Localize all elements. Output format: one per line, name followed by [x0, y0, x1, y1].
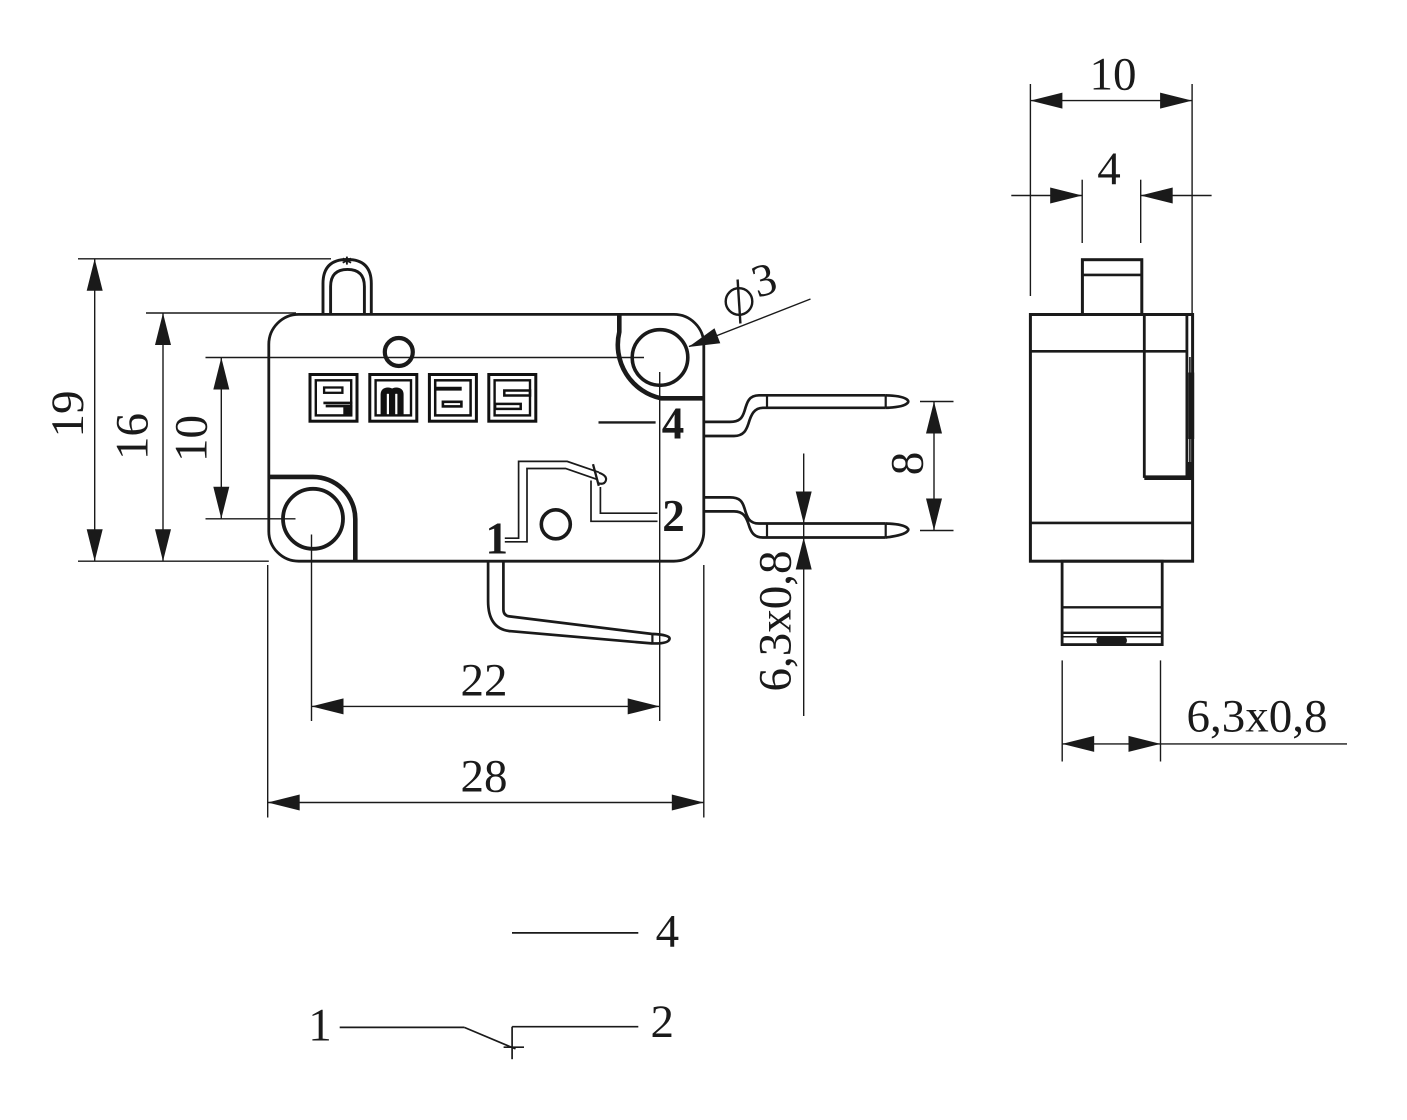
- schematic switch blade: [464, 1027, 515, 1049]
- leader phi 3: [689, 299, 811, 347]
- svg-text:4: 4: [656, 906, 680, 958]
- plunger outer: [323, 259, 371, 314]
- schematic blade tick: [504, 1046, 524, 1048]
- schematic contact post 2: [511, 1027, 513, 1060]
- dimension 10 (hole distance): [206, 358, 645, 519]
- dimension 6,3x0,8 side: [1062, 660, 1347, 761]
- side plunger cap line: [1082, 274, 1141, 277]
- dimension 22: [312, 705, 660, 707]
- lever arm: [488, 562, 669, 643]
- svg-text:8: 8: [882, 452, 934, 476]
- svg-text:4: 4: [1097, 143, 1121, 195]
- schematic wire from 1: [340, 1026, 465, 1028]
- side latch thick edge: [1188, 373, 1194, 440]
- body outline front view: [269, 314, 704, 561]
- side terminal blade end: [1096, 637, 1127, 644]
- terminal 4 (upper right): [705, 395, 909, 436]
- extension line right hole to dim 22: [659, 372, 661, 721]
- side terminal block: [1062, 561, 1162, 644]
- dimension 6,3x0,8 (front terminal): [803, 454, 805, 717]
- svg-text:6,3x0,8: 6,3x0,8: [1187, 691, 1328, 743]
- terminal 2 (lower right): [705, 497, 909, 537]
- svg-text:22: 22: [461, 655, 508, 707]
- plunger inner: [331, 269, 365, 314]
- asterisk mark: [343, 257, 351, 265]
- svg-text:10: 10: [1090, 49, 1137, 101]
- schematic contact 4 line: [512, 932, 638, 934]
- extension line left hole to dim 22: [311, 535, 313, 722]
- small circle near terminal 1: [541, 510, 570, 539]
- svg-text:28: 28: [461, 751, 508, 803]
- emas letter e box: [310, 375, 357, 422]
- dimension 28: [268, 565, 704, 818]
- emas letter a box: [429, 375, 476, 422]
- svg-text:19: 19: [42, 391, 94, 438]
- dimension 19: [78, 259, 331, 561]
- svg-text:4: 4: [662, 399, 685, 449]
- internal contact strip: [505, 461, 658, 541]
- svg-text:2: 2: [662, 491, 685, 541]
- svg-text:16: 16: [107, 413, 159, 460]
- side band line lower: [1030, 522, 1192, 525]
- bottom-left mounting hole: [283, 489, 343, 549]
- dimension 10 side: [1030, 84, 1192, 313]
- small top circle: [385, 338, 413, 366]
- svg-text:1: 1: [485, 514, 508, 564]
- lever tip tick: [651, 634, 653, 644]
- emas logo: [310, 375, 536, 422]
- svg-text:6,3x0,8: 6,3x0,8: [750, 551, 802, 692]
- schematic wire to 2: [512, 1026, 638, 1028]
- side band line upper: [1030, 350, 1187, 353]
- top-right ear boundary: [618, 314, 704, 398]
- emas letter m box: [370, 375, 417, 422]
- side view plunger: [1082, 260, 1141, 315]
- top-right mounting hole: [632, 330, 688, 386]
- svg-text:1: 1: [308, 999, 332, 1051]
- bottom-left ear boundary: [270, 477, 356, 560]
- side view body: [1030, 315, 1192, 562]
- side latch channel: [1144, 315, 1192, 478]
- svg-text:2: 2: [651, 996, 675, 1048]
- dimension 4 side: [1011, 180, 1211, 243]
- dash before 4: [599, 421, 656, 423]
- dimension 16: [146, 313, 296, 561]
- dimension 8 (terminal spacing): [920, 402, 954, 531]
- svg-text:10: 10: [166, 415, 218, 462]
- emas letter s box: [489, 375, 536, 422]
